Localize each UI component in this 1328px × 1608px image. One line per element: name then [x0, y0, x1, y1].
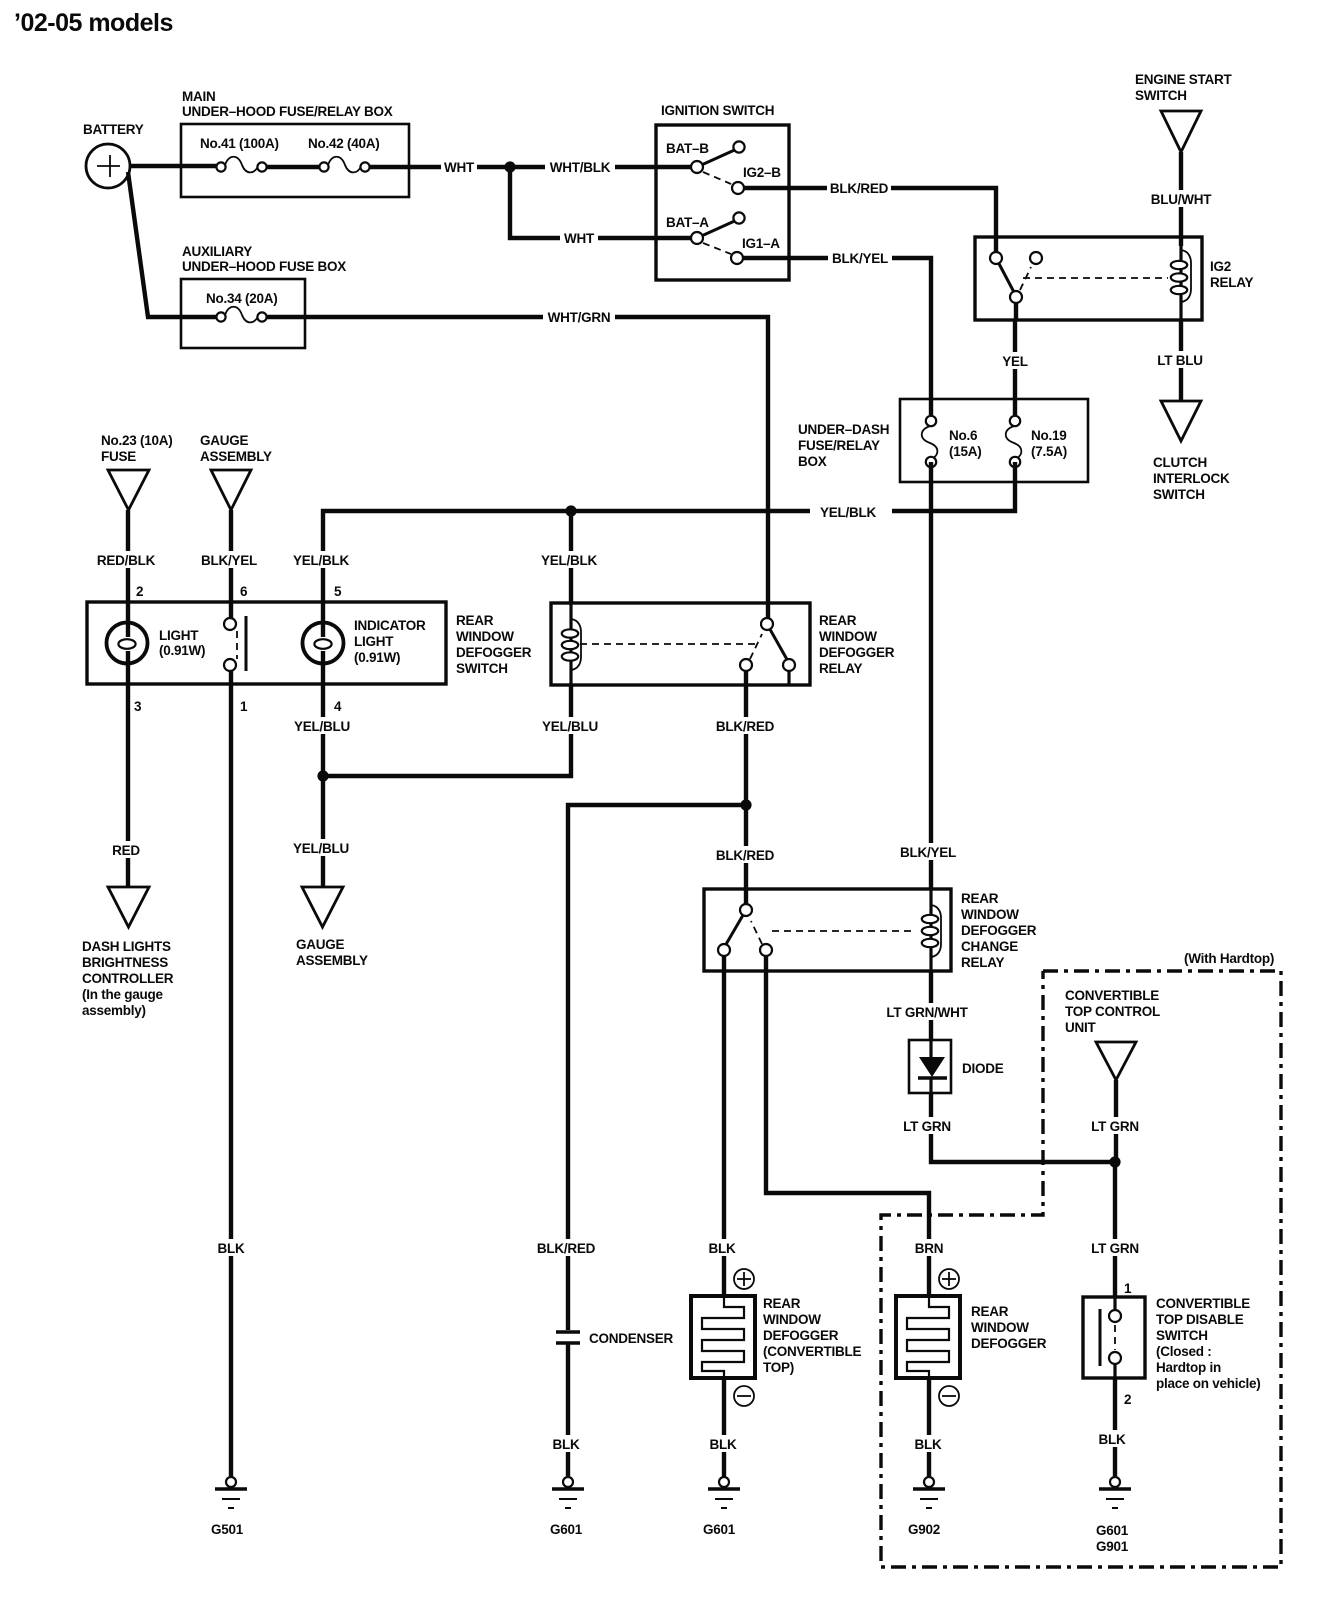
svg-text:WHT/BLK: WHT/BLK — [550, 160, 611, 175]
svg-text:WINDOW: WINDOW — [961, 907, 1019, 922]
svg-text:DEFOGGER: DEFOGGER — [961, 923, 1037, 938]
svg-text:BOX: BOX — [798, 454, 827, 469]
fuse No.41 (100A) — [200, 136, 279, 172]
wire BLK/RED junction to condenser branch — [536, 805, 746, 1330]
fuse No.42 (40A) — [308, 136, 380, 172]
indicator light bulb (0.91W) — [303, 602, 426, 684]
svg-text:WHT: WHT — [564, 231, 595, 246]
svg-text:SWITCH: SWITCH — [1153, 487, 1205, 502]
svg-text:3: 3 — [134, 699, 142, 714]
svg-text:REAR: REAR — [763, 1296, 801, 1311]
svg-text:G901: G901 — [1096, 1539, 1129, 1554]
wire BRN change relay right output to rear defogger — [766, 956, 949, 1296]
svg-text:RELAY: RELAY — [819, 661, 863, 676]
wire BLK defogger (convertible top) to ground — [705, 1378, 743, 1477]
change relay coil — [922, 889, 941, 971]
svg-text:G501: G501 — [211, 1522, 244, 1537]
svg-text:ENGINE START: ENGINE START — [1135, 72, 1233, 87]
svg-text:RED/BLK: RED/BLK — [97, 553, 156, 568]
svg-text:CHANGE: CHANGE — [961, 939, 1018, 954]
svg-text:INDICATOR: INDICATOR — [354, 618, 426, 633]
fuse No.6 (15A) — [922, 416, 982, 467]
hardtop dash-dot boundary — [881, 951, 1281, 1567]
svg-text:(15A): (15A) — [949, 444, 982, 459]
ignition switch box — [656, 103, 789, 280]
minus terminal (rear defogger) — [939, 1386, 959, 1406]
wire YEL/BLU junction to gauge assembly — [293, 776, 349, 886]
svg-text:No.42 (40A): No.42 (40A) — [308, 136, 380, 151]
svg-text:WHT: WHT — [444, 160, 475, 175]
gauge assembly connector (top) — [200, 433, 272, 510]
wire YEL IG2 relay to fuse No.19 — [998, 303, 1032, 415]
title '02-05 models — [14, 9, 173, 37]
svg-text:BLK/YEL: BLK/YEL — [201, 553, 257, 568]
wire LT GRN diode to junction — [902, 1093, 1115, 1162]
svg-text:WHT/GRN: WHT/GRN — [548, 310, 611, 325]
wire BLK/RED relay output down — [716, 671, 775, 805]
wire BLU/WHT engine start to IG2 relay coil — [1151, 152, 1212, 246]
svg-text:place on vehicle): place on vehicle) — [1156, 1376, 1261, 1391]
svg-text:YEL/BLK: YEL/BLK — [293, 553, 350, 568]
svg-text:YEL/BLU: YEL/BLU — [542, 719, 598, 734]
svg-text:LIGHT: LIGHT — [354, 634, 394, 649]
wire BLK change relay left output to defogger (convertible top) — [704, 956, 742, 1296]
main under-hood fuse/relay box — [181, 89, 409, 197]
clutch interlock switch connector — [1153, 401, 1230, 502]
ground G902 — [908, 1477, 945, 1537]
svg-text:IG2: IG2 — [1210, 259, 1231, 274]
svg-text:RELAY: RELAY — [1210, 275, 1254, 290]
condenser — [556, 1331, 674, 1346]
svg-text:FUSE: FUSE — [101, 449, 136, 464]
svg-text:BLK: BLK — [218, 1241, 245, 1256]
svg-text:CONDENSER: CONDENSER — [589, 1331, 674, 1346]
svg-text:IGNITION SWITCH: IGNITION SWITCH — [661, 103, 774, 118]
svg-text:6: 6 — [240, 584, 248, 599]
ground G601 (condenser) — [550, 1477, 584, 1537]
svg-text:DEFOGGER: DEFOGGER — [763, 1328, 839, 1343]
svg-text:No.6: No.6 — [949, 428, 978, 443]
battery — [83, 122, 144, 188]
svg-text:TOP): TOP) — [763, 1360, 794, 1375]
wire YEL/BLU junction to defogger relay coil — [323, 685, 598, 776]
svg-text:Hardtop in: Hardtop in — [1156, 1360, 1221, 1375]
svg-text:CONTROLLER: CONTROLLER — [82, 971, 174, 986]
svg-text:No.34 (20A): No.34 (20A) — [206, 291, 278, 306]
svg-text:(With Hardtop): (With Hardtop) — [1184, 951, 1274, 966]
svg-text:No.23 (10A): No.23 (10A) — [101, 433, 173, 448]
engine start switch connector — [1135, 72, 1233, 152]
defogger switch contact pins 6-1 — [224, 602, 246, 684]
gauge assembly connector (bottom) — [296, 887, 368, 968]
svg-text:SWITCH: SWITCH — [456, 661, 508, 676]
wire YEL/BLK junction to defogger relay coil — [541, 511, 598, 603]
svg-text:LT GRN/WHT: LT GRN/WHT — [886, 1005, 968, 1020]
svg-text:assembly): assembly) — [82, 1003, 146, 1018]
svg-text:FUSE/RELAY: FUSE/RELAY — [798, 438, 880, 453]
svg-text:CONVERTIBLE: CONVERTIBLE — [1156, 1296, 1250, 1311]
wire BLK/RED IG2-B to IG2 relay — [744, 179, 996, 252]
svg-text:AUXILIARY: AUXILIARY — [182, 244, 252, 259]
svg-text:RED: RED — [112, 843, 140, 858]
svg-text:No.19: No.19 — [1031, 428, 1067, 443]
svg-text:DEFOGGER: DEFOGGER — [456, 645, 532, 660]
svg-text:BLU/WHT: BLU/WHT — [1151, 192, 1212, 207]
svg-text:SWITCH: SWITCH — [1135, 88, 1187, 103]
wire BLK/YEL IG1-A to under-dash fuse No.6 — [743, 249, 931, 415]
rear window defogger change relay box — [704, 889, 1037, 971]
auxiliary under-hood fuse box — [181, 244, 346, 348]
svg-text:WINDOW: WINDOW — [971, 1320, 1029, 1335]
svg-text:BLK: BLK — [553, 1437, 580, 1452]
svg-text:BLK: BLK — [915, 1437, 942, 1452]
svg-text:DASH LIGHTS: DASH LIGHTS — [82, 939, 171, 954]
wire LT BLU IG2 coil to clutch interlock — [1153, 320, 1207, 401]
svg-text:No.41 (100A): No.41 (100A) — [200, 136, 279, 151]
svg-text:DEFOGGER: DEFOGGER — [971, 1336, 1047, 1351]
wire YEL/BLU switch pin 4 down — [294, 684, 350, 776]
node junction YEL/BLK at relay coil — [565, 505, 576, 516]
svg-text:BLK/YEL: BLK/YEL — [832, 251, 888, 266]
svg-text:YEL: YEL — [1002, 354, 1028, 369]
svg-text:REAR: REAR — [961, 891, 999, 906]
minus terminal (convertible top defogger) — [734, 1386, 754, 1406]
svg-text:LT GRN: LT GRN — [1091, 1241, 1139, 1256]
svg-text:GAUGE: GAUGE — [200, 433, 249, 448]
svg-text:WINDOW: WINDOW — [819, 629, 877, 644]
svg-text:2: 2 — [1124, 1392, 1131, 1407]
svg-text:UNDER–DASH: UNDER–DASH — [798, 422, 889, 437]
svg-text:WINDOW: WINDOW — [456, 629, 514, 644]
svg-text:BAT–A: BAT–A — [666, 215, 709, 230]
svg-text:LT BLU: LT BLU — [1157, 353, 1203, 368]
svg-text:YEL/BLK: YEL/BLK — [820, 505, 877, 520]
rear window defogger (convertible top) — [691, 1296, 861, 1378]
wire WHT/GRN aux box to defogger relay contact — [266, 308, 768, 618]
svg-text:G601: G601 — [703, 1522, 736, 1537]
svg-text:UNDER–HOOD FUSE BOX: UNDER–HOOD FUSE BOX — [182, 259, 346, 274]
svg-text:2: 2 — [136, 584, 143, 599]
wire BLK switch pin 1 to ground G501 — [211, 684, 251, 1477]
IG2 relay switch contacts — [990, 252, 1168, 303]
wire LT GRN junction to disable switch pin 1 — [1089, 1162, 1141, 1297]
svg-text:CONVERTIBLE: CONVERTIBLE — [1065, 988, 1159, 1003]
svg-text:BLK/RED: BLK/RED — [716, 848, 775, 863]
node junction LT GRN — [1109, 1156, 1120, 1167]
svg-text:BRN: BRN — [915, 1241, 944, 1256]
wire BLK rear defogger to ground — [910, 1378, 948, 1477]
convertible top disable switch box — [1083, 1296, 1261, 1391]
svg-text:YEL/BLU: YEL/BLU — [294, 719, 350, 734]
light bulb (0.91W) — [107, 602, 206, 684]
rear window defogger — [896, 1296, 1047, 1378]
svg-text:BLK/RED: BLK/RED — [537, 1241, 596, 1256]
ignition switch BAT-B contact — [666, 141, 781, 194]
plus terminal (convertible top defogger) — [734, 1269, 754, 1289]
svg-text:(Closed :: (Closed : — [1156, 1344, 1212, 1359]
fuse No.23 connector — [101, 433, 173, 510]
wire RED switch pin 3 to dash lights controller — [110, 684, 142, 886]
ground G501 — [211, 1477, 247, 1537]
wire LT GRN/WHT change relay coil to diode — [884, 971, 970, 1040]
svg-text:(0.91W): (0.91W) — [159, 643, 205, 658]
ground G601 (convertible top defogger) — [703, 1477, 740, 1537]
svg-text:GAUGE: GAUGE — [296, 937, 345, 952]
wire WHT from main box to junction — [369, 158, 510, 175]
wire between fuses — [266, 165, 320, 169]
svg-text:BLK/YEL: BLK/YEL — [900, 845, 956, 860]
wire LT GRN control unit to junction — [1090, 1080, 1140, 1162]
svg-text:ASSEMBLY: ASSEMBLY — [296, 953, 368, 968]
svg-text:5: 5 — [334, 584, 342, 599]
wire WHT/BLK junction to ignition BAT-B — [510, 158, 692, 175]
svg-text:ASSEMBLY: ASSEMBLY — [200, 449, 272, 464]
svg-text:INTERLOCK: INTERLOCK — [1153, 471, 1230, 486]
rear window defogger relay box — [551, 603, 895, 685]
wire battery to main fuse box — [129, 164, 219, 168]
svg-text:REAR: REAR — [819, 613, 857, 628]
svg-text:CLUTCH: CLUTCH — [1153, 455, 1207, 470]
IG2 relay box — [975, 237, 1254, 320]
svg-text:UNIT: UNIT — [1065, 1020, 1096, 1035]
wire BLK/YEL gauge assembly to switch pin 6 — [201, 510, 257, 602]
svg-text:DEFOGGER: DEFOGGER — [819, 645, 895, 660]
svg-text:LIGHT: LIGHT — [159, 628, 199, 643]
wire YEL/BLK bus from fuse No.19 to defogger switch pin 5 — [293, 462, 1015, 602]
svg-text:(CONVERTIBLE: (CONVERTIBLE — [763, 1344, 861, 1359]
svg-text:(In the gauge: (In the gauge — [82, 987, 163, 1002]
plus terminal (rear defogger) — [939, 1269, 959, 1289]
svg-text:REAR: REAR — [456, 613, 494, 628]
svg-text:REAR: REAR — [971, 1304, 1009, 1319]
svg-text:UNDER–HOOD FUSE/RELAY BOX: UNDER–HOOD FUSE/RELAY BOX — [182, 104, 393, 119]
under-dash fuse/relay box — [798, 399, 1088, 482]
svg-text:BAT–B: BAT–B — [666, 141, 709, 156]
defogger relay coil — [562, 603, 581, 685]
svg-text:RELAY: RELAY — [961, 955, 1005, 970]
diode D1 — [909, 1040, 1004, 1093]
svg-text:MAIN: MAIN — [182, 89, 216, 104]
svg-text:BLK/RED: BLK/RED — [830, 181, 889, 196]
svg-text:TOP DISABLE: TOP DISABLE — [1156, 1312, 1244, 1327]
wire BLK condenser to ground — [548, 1343, 586, 1477]
svg-text:(7.5A): (7.5A) — [1031, 444, 1067, 459]
svg-text:BLK: BLK — [709, 1241, 736, 1256]
ignition switch BAT-A contact — [666, 212, 780, 264]
svg-text:SWITCH: SWITCH — [1156, 1328, 1208, 1343]
node junction BLK/RED — [740, 799, 751, 810]
disable switch contacts — [1100, 1297, 1121, 1378]
svg-text:BRIGHTNESS: BRIGHTNESS — [82, 955, 168, 970]
node junction YEL/BLU — [317, 770, 328, 781]
svg-text:BLK: BLK — [1099, 1432, 1126, 1447]
wire battery to auxiliary fuse box (diagonal) — [128, 172, 219, 317]
wire BLK/YEL fuse No.6 to change relay coil — [900, 462, 957, 889]
node junction WHT — [504, 161, 515, 172]
IG2 relay coil — [1171, 237, 1191, 320]
wire RED/BLK fuse No.23 to switch pin 2 — [97, 510, 156, 602]
dash lights brightness controller connector — [82, 887, 174, 1018]
svg-text:YEL/BLK: YEL/BLK — [541, 553, 598, 568]
svg-text:4: 4 — [334, 699, 342, 714]
svg-text:LT GRN: LT GRN — [903, 1119, 951, 1134]
wire WHT junction branch to ignition BAT-A — [510, 167, 692, 246]
convertible top control unit connector — [1065, 988, 1160, 1080]
rear window defogger switch box — [87, 602, 532, 684]
svg-text:BLK/RED: BLK/RED — [716, 719, 775, 734]
wire BLK disable switch pin 2 to ground — [1094, 1378, 1134, 1477]
svg-text:WINDOW: WINDOW — [763, 1312, 821, 1327]
svg-text:G902: G902 — [908, 1522, 940, 1537]
svg-text:(0.91W): (0.91W) — [354, 650, 400, 665]
svg-text:G601: G601 — [550, 1522, 583, 1537]
change relay switch contacts — [718, 904, 916, 956]
wire BLK/RED junction to change relay — [716, 805, 775, 904]
svg-text:IG2–B: IG2–B — [743, 165, 781, 180]
ground G601 G901 — [1096, 1477, 1131, 1554]
svg-text:DIODE: DIODE — [962, 1061, 1004, 1076]
svg-text:1: 1 — [1124, 1281, 1132, 1296]
svg-text:YEL/BLU: YEL/BLU — [293, 841, 349, 856]
fuse No.19 (7.5A) — [1006, 416, 1067, 467]
svg-text:G601: G601 — [1096, 1523, 1129, 1538]
svg-text:TOP CONTROL: TOP CONTROL — [1065, 1004, 1160, 1019]
svg-text:LT GRN: LT GRN — [1091, 1119, 1139, 1134]
svg-text:IG1–A: IG1–A — [742, 236, 780, 251]
svg-text:BATTERY: BATTERY — [83, 122, 144, 137]
svg-text:BLK: BLK — [710, 1437, 737, 1452]
fuse No.34 (20A) — [206, 291, 278, 322]
svg-text:’02-05 models: ’02-05 models — [14, 9, 173, 37]
defogger relay switch contacts — [580, 618, 795, 685]
svg-text:1: 1 — [240, 699, 248, 714]
